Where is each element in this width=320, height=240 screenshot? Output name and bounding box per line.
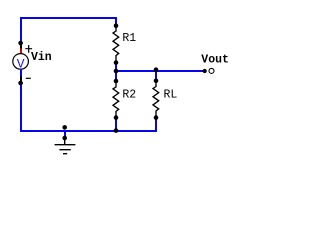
Vout terminal dot [203, 69, 207, 73]
junction dot Vin- terminal [18, 81, 23, 86]
junction dot ground terminal [62, 136, 67, 141]
svg-text:R2: R2 [122, 88, 136, 101]
label R2 [122, 88, 136, 101]
wire R1 bottom to R2 top [115, 62, 117, 81]
wire RL top drop from middle wire [155, 71, 157, 81]
junction dot R2 top [114, 79, 119, 84]
ground lead black [64, 138, 66, 145]
minus sign of Vin [26, 77, 31, 79]
voltage source Vin circle [13, 54, 29, 70]
junction dot node at middle wire [114, 69, 119, 74]
ground symbol bars [55, 145, 76, 154]
junction dot R2 bottom [114, 115, 119, 120]
resistor R2 zigzag [113, 81, 119, 118]
Vin top lead red segment [20, 49, 22, 55]
wire from Vin- down, along bottom, up to RL bottom [21, 83, 156, 131]
junction dot ground on bottom rail [62, 125, 67, 130]
ground stub blue [64, 131, 66, 138]
Vin bottom lead blue segment [20, 69, 22, 77]
Vout open terminal circle [209, 68, 214, 73]
junction dot RL top on middle wire [154, 67, 159, 72]
junction dot R1 top [114, 23, 119, 28]
label Vout [201, 53, 229, 66]
label R1 [122, 32, 136, 45]
plus sign of Vin [25, 45, 32, 53]
resistor RL zigzag [153, 81, 159, 118]
junction dot bottom rail under R2 [114, 128, 119, 133]
resistor R1 zigzag [113, 26, 119, 63]
svg-text:Vout: Vout [201, 53, 229, 66]
junction dot RL bottom terminal [154, 115, 159, 120]
wire from Vin+ up, across top, down to R1 top [21, 18, 116, 43]
wire R2 bottom to bottom rail [115, 117, 117, 131]
voltage source V symbol text [17, 57, 25, 72]
junction dot RL top terminal [154, 79, 159, 84]
wire middle horizontal to Vout [116, 70, 205, 72]
svg-text:R1: R1 [122, 32, 136, 45]
junction dot Vin+ terminal [18, 41, 23, 46]
svg-text:Vin: Vin [31, 51, 52, 64]
Vin top lead black segment [20, 42, 22, 49]
label RL [164, 88, 178, 101]
junction dot R1 bottom [114, 60, 119, 65]
svg-text:RL: RL [164, 88, 178, 101]
label Vin [31, 51, 52, 64]
Vin bottom lead black segment [20, 77, 22, 84]
